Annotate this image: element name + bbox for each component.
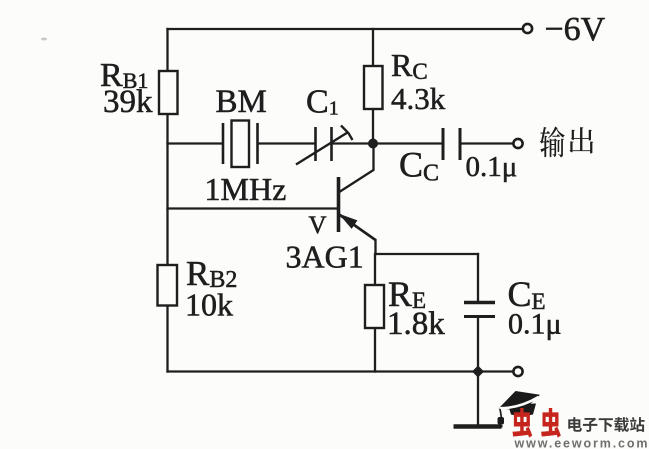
wire CE bottom bbox=[477, 317, 479, 372]
terminal -6V open circle bbox=[523, 24, 532, 33]
wire RC top connection bbox=[372, 29, 374, 66]
C1 variable arrow bbox=[296, 126, 353, 165]
wire RE top bbox=[374, 254, 376, 285]
node A collector junction dot bbox=[368, 139, 378, 149]
wire emitter lead down to junction bbox=[374, 240, 376, 254]
watermark chongchong red characters bbox=[513, 408, 561, 438]
transistor V 3AG1: base bar bbox=[337, 177, 341, 232]
capacitor C1 variable: left plate bbox=[314, 127, 317, 161]
transistor emitter diagonal bbox=[339, 214, 376, 240]
resistor RB2 10k bbox=[158, 265, 178, 306]
capacitor CC left plate bbox=[442, 128, 445, 160]
terminal output open circle bbox=[513, 139, 522, 148]
crystal BM 1MHz: left plate bbox=[222, 123, 225, 164]
svg-text:www.eeworm.com: www.eeworm.com bbox=[514, 437, 648, 449]
resistor RE 1.8k bbox=[365, 285, 384, 328]
wire C1 to collector node segment bbox=[333, 142, 373, 144]
wire RE bottom to ground rail bbox=[374, 328, 376, 372]
watermark graduation cap bbox=[498, 391, 541, 428]
wire base line bbox=[168, 207, 339, 209]
watermark site name bbox=[568, 417, 644, 432]
node B bottom-rail junction dot bbox=[472, 366, 484, 378]
svg-text:BM: BM bbox=[216, 84, 267, 120]
crystal body rect bbox=[232, 121, 250, 168]
wire top rail from left corner to -6V terminal bbox=[168, 28, 522, 30]
capacitor CE top plate bbox=[464, 301, 495, 305]
wire node to CC capacitor bbox=[373, 142, 442, 144]
svg-text:0.1μ: 0.1μ bbox=[508, 308, 562, 341]
wire crystal to C1 segment bbox=[259, 142, 314, 144]
svg-text:1.8k: 1.8k bbox=[387, 306, 445, 342]
svg-text:0.1μ: 0.1μ bbox=[466, 151, 518, 183]
resistor RB1 39k bbox=[159, 71, 178, 114]
CE bottom plate bbox=[464, 315, 495, 318]
svg-text:−6V: −6V bbox=[545, 11, 606, 48]
terminal bottom open circle bbox=[513, 367, 522, 376]
svg-text:V: V bbox=[309, 212, 327, 239]
resistor RC 4.3k bbox=[364, 66, 383, 109]
CC right plate bbox=[459, 128, 462, 160]
wire left vertical rail bbox=[166, 29, 168, 71]
wire CE top bbox=[477, 254, 479, 302]
C1 right plate bbox=[330, 127, 333, 161]
svg-text:4.3k: 4.3k bbox=[391, 81, 446, 116]
wire CC to output terminal bbox=[462, 142, 513, 144]
wire crystal branch left segment bbox=[168, 142, 222, 144]
wire ground stem bbox=[477, 372, 479, 425]
svg-text:3AG1: 3AG1 bbox=[286, 239, 364, 275]
svg-text:10k: 10k bbox=[185, 287, 233, 323]
wire RC bottom to node bbox=[372, 109, 374, 144]
svg-text:39k: 39k bbox=[103, 84, 153, 120]
speck (scan artifact) bbox=[41, 38, 47, 41]
label output (Chinese: shuchu) bbox=[540, 126, 593, 157]
wire emitter junction to CE branch bbox=[376, 253, 479, 255]
svg-text:1MHz: 1MHz bbox=[205, 171, 287, 207]
transistor emitter arrow (PNP, pointing to base) bbox=[341, 215, 357, 228]
crystal right plate bbox=[256, 123, 259, 164]
wire bottom rail bbox=[168, 370, 513, 372]
wire collector lead bbox=[339, 144, 374, 193]
ground symbol bbox=[454, 424, 502, 429]
